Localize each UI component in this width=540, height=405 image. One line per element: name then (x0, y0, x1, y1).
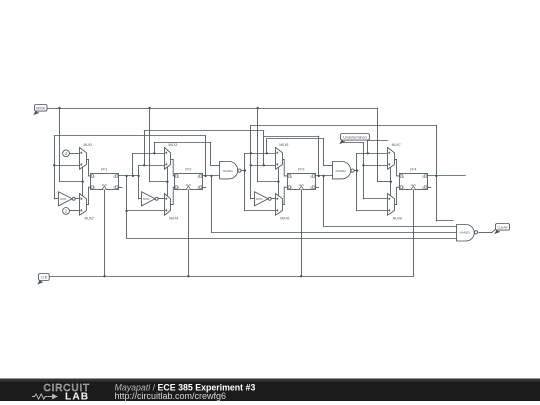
svg-text:MUX7: MUX7 (392, 143, 401, 147)
wire rail R1 (54, 135, 205, 137)
svg-text:Q: Q (113, 186, 115, 190)
wire NOT2 out (158, 198, 164, 200)
wire NOT3 in (251, 198, 254, 200)
wire sel riser down x=278.4 (278, 182, 280, 197)
wire MODE rail (47, 108, 378, 110)
svg-text:1: 1 (65, 151, 68, 157)
junction dots (58, 107, 60, 109)
mux MUX3 (165, 143, 178, 169)
wire MUX4 in2 (127, 210, 165, 212)
svg-text:CLR: CLR (41, 276, 48, 280)
wire MUX8 in1 (363, 198, 388, 200)
svg-text:http://circuitlab.com/crewfg6: http://circuitlab.com/crewfg6 (115, 391, 227, 401)
mux MUX6 (276, 194, 290, 221)
svg-text:K: K (94, 186, 96, 190)
CircuitLab logo (32, 383, 90, 403)
wire MODE drop stage2 (149, 108, 151, 182)
wire MODE sel stage3 (258, 181, 279, 183)
svg-text:CLEAR: CLEAR (497, 225, 508, 229)
svg-text:MUX6: MUX6 (280, 216, 289, 220)
mux MUX4 (165, 194, 179, 221)
wire FF2 Q to NAND1 (202, 175, 220, 177)
wire R2 jog down (263, 131, 265, 166)
wire sel riser up x=82.7 (82, 167, 84, 181)
mux MUX7 (388, 143, 401, 169)
wire CLR rail (49, 276, 413, 278)
wire Q4 route (436, 220, 453, 222)
flag Undetermined (340, 134, 369, 144)
wire NAND3 out (479, 232, 492, 234)
svg-text:MODE: MODE (36, 106, 46, 110)
wire R3 end drop (436, 125, 438, 221)
wire MUX out J stage x=387.9 (394, 159, 399, 176)
wire MUX out J stage x=79.8 (86, 159, 91, 176)
flag CLR (38, 274, 49, 284)
wire MUX7 in1 (357, 153, 388, 155)
svg-text:MUX5: MUX5 (279, 143, 288, 147)
flag CLEAR (495, 224, 509, 234)
wire MODE sel stage2 (150, 181, 168, 183)
wire Undetermined lead (341, 142, 363, 144)
flag MODE (34, 105, 47, 115)
wire sel riser down x=167.4 (167, 182, 169, 197)
wire FF2 CLK drop (188, 190, 190, 276)
wire MUX out K stage x=275.5 (282, 187, 287, 204)
wire MUX out K stage x=387.9 (394, 187, 399, 204)
wire rail Rc (127, 238, 457, 240)
wire sel riser down x=82.7 (82, 182, 84, 197)
nand gate NAND3 (457, 225, 478, 242)
wire Q2 drop to Rb (211, 176, 213, 232)
wire R1 left riser (54, 136, 56, 199)
wire rail Ra (324, 226, 457, 228)
wire MUX3 in2 (139, 165, 165, 167)
svg-text:FF4: FF4 (410, 167, 416, 171)
wire MUX8 in2 (357, 210, 388, 212)
wire rail R3 (251, 125, 436, 127)
logic one V2 (63, 208, 70, 215)
wire FF1 Q (119, 175, 139, 177)
wire NAND1 riser down (244, 171, 246, 211)
wire NAND2 out (354, 170, 357, 172)
wire MUX out J stage x=275.5 (282, 159, 287, 176)
wire MUX out J stage x=164.5 (171, 159, 175, 176)
wire Undetermined drop (363, 143, 365, 199)
wire FF3 Qbar stub (315, 187, 319, 189)
wire chain riser stage2 (154, 142, 156, 153)
wire chain riser stage4 (367, 141, 369, 154)
svg-text:K: K (178, 186, 180, 190)
wire R2 left riser (144, 131, 146, 166)
wire NAND1 riser up (244, 153, 246, 170)
wire MUX1 in2 (54, 165, 80, 167)
svg-text:NOT3: NOT3 (256, 198, 263, 201)
wire R2 drop to Q3 (318, 136, 320, 176)
wire MUX3 in1 (133, 153, 165, 155)
wire MODE drop stage3 (257, 108, 259, 182)
wire R1 right drop (205, 136, 207, 176)
wire FF3 CLK drop (301, 190, 303, 276)
svg-text:NAND2: NAND2 (336, 169, 347, 173)
svg-text:Undetermined: Undetermined (343, 135, 366, 139)
wire Q3 drop to Ra (323, 176, 325, 226)
flip-flop FF4 (400, 167, 428, 189)
wire MODE drop stage4 (377, 108, 379, 182)
wire Q1 drop to Rc (126, 176, 128, 238)
svg-text:K: K (403, 186, 405, 190)
wire NAND2 in1 drop (323, 139, 325, 166)
wire sel riser up x=390.8 (390, 167, 392, 181)
wire NOT1 out (75, 198, 80, 200)
wire NOT2 riser (138, 165, 140, 199)
wire sel riser up x=278.4 (278, 167, 280, 181)
wire NAND2 riser up (356, 153, 358, 170)
inverter NOT2 (142, 192, 159, 206)
wire FF4 CLK drop (413, 190, 415, 276)
svg-text:1: 1 (65, 209, 68, 215)
svg-text:LAB: LAB (65, 392, 89, 403)
inverter NOT3 (255, 192, 272, 206)
flip-flop FF2 (175, 167, 203, 189)
wire sel riser down x=390.8 (390, 182, 392, 197)
mux MUX1 (80, 143, 93, 169)
wire MUX6 in2 (245, 210, 276, 212)
svg-text:FF2: FF2 (185, 167, 191, 171)
wire CLEAR lead (492, 229, 497, 233)
nand gate NAND1 (220, 162, 242, 179)
wire NAND2 in1 (324, 165, 333, 167)
svg-text:FF3: FF3 (298, 167, 304, 171)
svg-text:FF1: FF1 (101, 167, 107, 171)
svg-text:MUX1: MUX1 (84, 143, 93, 147)
wire const1 a lead (69, 153, 79, 155)
wire FF4 Qbar stub (427, 187, 431, 189)
svg-text:MUX3: MUX3 (168, 143, 177, 147)
wire sel riser up x=167.4 (167, 167, 169, 181)
nand gate NAND2 (333, 162, 355, 179)
wire NAND1 out (241, 170, 245, 172)
svg-text:MUX8: MUX8 (393, 216, 402, 220)
wire MUX out K stage x=164.5 (171, 187, 175, 204)
wire FF1 CLK drop (104, 190, 106, 276)
wire R2 jog right (264, 136, 319, 138)
wire MODE sel stage4 (377, 181, 390, 183)
wire FF1 Qbar stub (119, 187, 123, 189)
wire MUX7 in2 (363, 165, 388, 167)
svg-text:NOT1: NOT1 (60, 198, 67, 201)
svg-text:Q: Q (113, 174, 115, 178)
wire NOT1 in (54, 198, 58, 200)
flip-flop FF3 (288, 167, 316, 189)
wire MUX5 in1 (245, 153, 276, 155)
mux MUX2 (80, 194, 94, 221)
wire rail Rb (211, 232, 456, 234)
wire rail R2 (144, 130, 264, 132)
wire FF2 Qbar stub (202, 187, 206, 189)
footer bar (0, 379, 540, 402)
svg-text:Q: Q (422, 186, 424, 190)
wire NAND1 in1 drop (210, 142, 212, 165)
wire MUX5 in2 (251, 165, 276, 167)
wire const1 b lead (69, 210, 79, 212)
wire NOT3 out (271, 198, 275, 200)
wire MODE sel stage1 (59, 181, 82, 183)
wire chain riser stage3 (266, 139, 268, 154)
svg-text:Q: Q (197, 186, 199, 190)
svg-text:NAND1: NAND1 (223, 169, 234, 173)
flip-flop FF1 (91, 167, 119, 189)
svg-text:K: K (291, 186, 293, 190)
svg-text:NAND3: NAND3 (460, 231, 471, 235)
mux MUX8 (388, 194, 402, 221)
mux MUX5 (276, 143, 289, 169)
wire FF3 Q to NAND2 (315, 175, 333, 177)
wire chain rail stage4 (368, 140, 388, 142)
wire NAND2 riser down (356, 171, 358, 211)
wire MUX out K stage x=79.8 (86, 187, 91, 204)
wire R3 riser stage3 (250, 125, 252, 198)
inverter NOT1 (59, 192, 76, 206)
wire chain rail stage3 (267, 138, 324, 140)
svg-text:Q: Q (310, 174, 312, 178)
logic one V1 (63, 150, 70, 157)
wire FF4 Q (427, 175, 465, 177)
svg-text:NOT2: NOT2 (143, 198, 150, 201)
svg-text:Q: Q (197, 174, 199, 178)
svg-text:MUX2: MUX2 (85, 216, 94, 220)
svg-text:MUX4: MUX4 (169, 216, 178, 220)
wire Q1 riser to MUX3 in1 (132, 153, 134, 176)
wire NOT2 in (139, 198, 142, 200)
wire MODE drop stage1 (59, 108, 61, 182)
svg-text:Q: Q (422, 174, 424, 178)
wire chain rail stage2 (154, 142, 211, 144)
svg-text:Q: Q (310, 186, 312, 190)
wire NAND1 in1 (211, 165, 220, 167)
